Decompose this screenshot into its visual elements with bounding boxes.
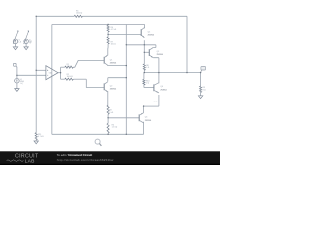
svg-text:Q1: Q1 (110, 59, 113, 61)
svg-text:4.7 kΩ: 4.7 kΩ (111, 29, 117, 31)
svg-text:100 kΩ: 100 kΩ (67, 76, 74, 78)
svg-text:1 kΩ: 1 kΩ (109, 112, 114, 114)
svg-text:1 k): 1 k) (20, 83, 23, 85)
svg-text:100 Ω: 100 Ω (111, 44, 117, 46)
svg-text:http://circuitlab.com/c/bcsas6: http://circuitlab.com/c/bcsas66k54bw (57, 158, 114, 162)
svg-text:Q4: Q4 (145, 117, 148, 119)
svg-text:Q3: Q3 (157, 51, 160, 53)
svg-text:2N3906: 2N3906 (110, 63, 116, 65)
svg-text:To edit / Unnamed Circuit: To edit / Unnamed Circuit (57, 153, 92, 157)
svg-text:2N3904: 2N3904 (110, 89, 116, 91)
svg-text:Q5: Q5 (148, 31, 151, 33)
svg-text:1.5 kΩ: 1.5 kΩ (112, 127, 118, 129)
svg-text:2N3904: 2N3904 (157, 54, 163, 56)
svg-text:— —: — — (154, 101, 158, 103)
svg-text:4.7 kΩ: 4.7 kΩ (38, 136, 44, 138)
svg-text:LAB: LAB (25, 159, 35, 165)
svg-text:10 kΩ: 10 kΩ (67, 66, 73, 68)
svg-text:2N3906: 2N3906 (148, 35, 154, 37)
svg-text:Q2: Q2 (110, 85, 113, 87)
svg-text:100mΩ: 100mΩ (76, 13, 83, 15)
svg-text:2N3906: 2N3906 (145, 120, 151, 122)
svg-text:Q6: Q6 (160, 86, 163, 88)
svg-text:CIRCUIT: CIRCUIT (15, 153, 39, 159)
svg-text:fb: fb (30, 43, 31, 45)
svg-text:2N3904: 2N3904 (160, 89, 166, 91)
